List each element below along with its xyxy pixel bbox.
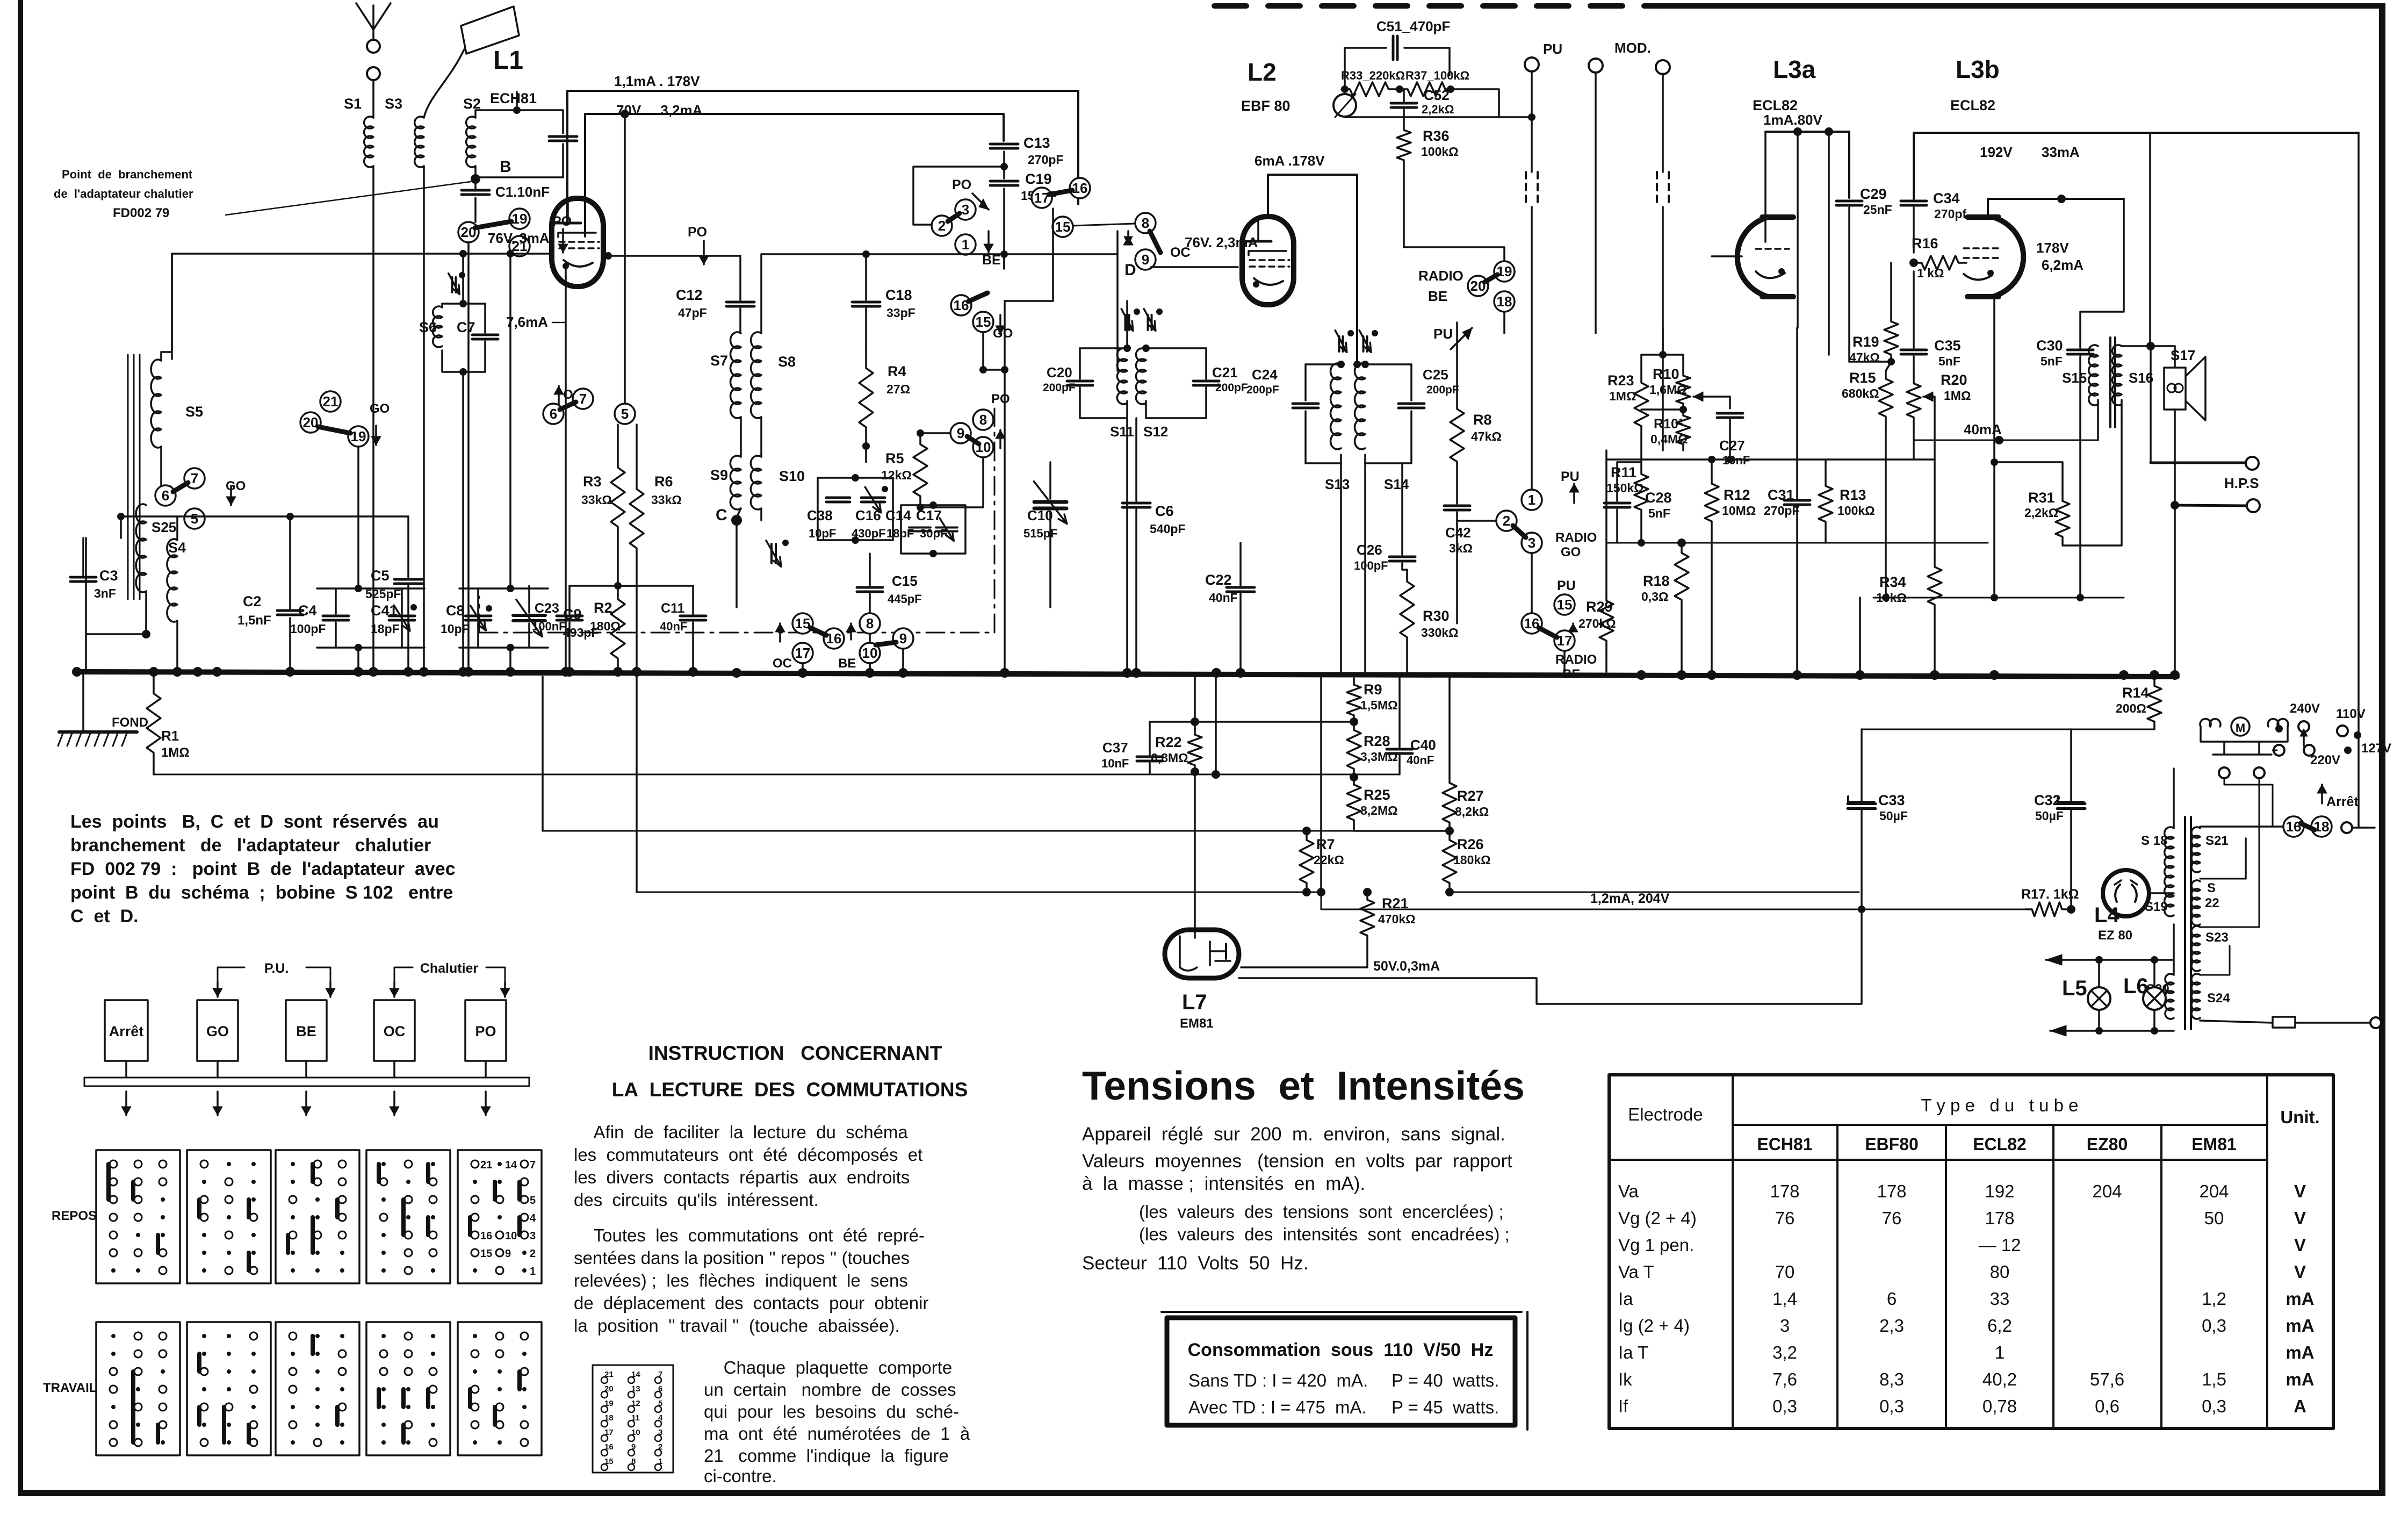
svg-text:19: 19 [1497,263,1512,279]
svg-text:R11: R11 [1611,464,1636,480]
svg-text:R12: R12 [1724,487,1750,503]
tuning indicator pot circle [1333,94,1356,117]
svg-text:la position '' travail '' (: la position '' travail '' (touche abaiss… [574,1316,900,1336]
svg-text:(les valeurs des tensions: (les valeurs des tensions sont encerclée… [1139,1202,1504,1222]
svg-text:S1: S1 [344,96,362,112]
svg-text:S25: S25 [152,519,176,535]
svg-text:Ia T: Ia T [1618,1342,1648,1362]
bus right portion dots [1636,670,1646,680]
svg-text:mA: mA [2286,1369,2314,1389]
svg-text:3: 3 [530,1230,536,1242]
svg-text:R14: R14 [2122,685,2149,701]
svg-text:9: 9 [957,425,964,441]
svg-text:Les points B, C et D so: Les points B, C et D sont réservés au [70,812,439,832]
svg-text:R28: R28 [1364,733,1390,749]
svg-text:mA: mA [2286,1316,2314,1336]
push-button PO [465,1000,506,1061]
svg-text:Va: Va [1618,1181,1639,1201]
svg-text:76V. 2,3mA: 76V. 2,3mA [1185,234,1258,250]
svg-text:GO: GO [1561,545,1581,559]
svg-text:1: 1 [530,1266,536,1277]
svg-text:680kΩ: 680kΩ [1842,386,1879,400]
tube table header [1732,1075,1734,1428]
svg-text:21: 21 [480,1159,492,1171]
plaquette travail 4 [366,1322,450,1455]
svg-text:7: 7 [579,391,587,407]
svg-text:RADIO: RADIO [1555,652,1597,667]
horizontal wire y961 [121,515,408,518]
svg-text:de l'adaptateur chalutier: de l'adaptateur chalutier [54,187,193,200]
svg-text:C15: C15 [892,573,918,589]
svg-text:5nF: 5nF [2041,354,2063,368]
cosse numbering figure [593,1365,673,1473]
svg-text:mA: mA [2286,1342,2314,1362]
svg-text:GO: GO [206,1023,229,1039]
antenna [372,30,374,39]
svg-text:R18: R18 [1643,573,1670,589]
plaquette travail 2 [187,1322,271,1455]
svg-text:C6: C6 [1155,503,1174,519]
svg-text:Afin de faciliter la lectu: Afin de faciliter la lecture du schéma [574,1122,908,1142]
svg-text:33pF: 33pF [886,306,915,320]
svg-text:INSTRUCTION CONCERNANT: INSTRUCTION CONCERNANT [648,1042,942,1064]
svg-text:C: C [716,506,727,524]
svg-text:21: 21 [323,393,338,410]
core lines S5 S4 [127,355,129,599]
svg-text:L2: L2 [1248,58,1277,86]
svg-text:S12: S12 [1143,423,1168,440]
C38 C14 box [818,478,893,540]
svg-text:33kΩ: 33kΩ [651,493,682,507]
wire C10 column [1049,462,1051,499]
svg-text:ECL82: ECL82 [1950,97,1995,113]
svg-text:RADIO: RADIO [1555,530,1597,545]
svg-text:C22: C22 [1205,572,1232,588]
svg-text:192: 192 [1985,1181,2014,1201]
B+ vertical to speaker line [2149,133,2151,346]
svg-text:C33: C33 [1878,792,1905,808]
P.U. bracket label [218,967,244,992]
svg-text:27Ω: 27Ω [886,382,910,396]
switch contacts PO lower [458,222,479,242]
svg-text:C52: C52 [1424,87,1450,103]
svg-text:8: 8 [979,412,987,428]
svg-text:ECH81: ECH81 [1757,1135,1812,1154]
svg-text:R4: R4 [888,363,906,379]
svg-text:430pF: 430pF [852,527,886,540]
svg-text:70V . 3,2mA: 70V . 3,2mA [616,102,703,118]
svg-text:C et D.: C et D. [70,906,139,927]
svg-text:Vg 1 pen.: Vg 1 pen. [1618,1235,1694,1255]
svg-text:330kΩ: 330kΩ [1421,626,1459,640]
wire S2 tank top to osc rail [516,92,518,110]
svg-text:S 18: S 18 [2141,834,2167,848]
svg-text:ci-contre.: ci-contre. [704,1466,777,1486]
svg-text:76V. 3mA: 76V. 3mA [488,230,550,246]
plaquette repos 4 [366,1150,450,1283]
svg-text:1: 1 [1528,492,1535,508]
PU terminal [1525,58,1539,71]
svg-text:P.U.: P.U. [264,961,289,976]
svg-text:FOND: FOND [112,715,148,730]
wire to switch 9 10 8 PO [951,295,971,315]
svg-text:C37: C37 [1102,740,1128,756]
S24 circuit [2200,974,2230,976]
switch cluster 8 10 9 BE [860,613,880,634]
svg-text:17: 17 [1557,633,1573,649]
svg-text:40nF: 40nF [1407,753,1434,767]
svg-text:Unit.: Unit. [2280,1107,2319,1127]
svg-text:10nF: 10nF [1101,757,1129,770]
consommation box [1167,1318,1515,1425]
svg-text:D: D [1124,261,1136,279]
S16 return to R31 [2063,420,2122,545]
svg-text:R20: R20 [1941,372,1967,388]
svg-text:EBF 80: EBF 80 [1241,98,1290,114]
svg-text:1MΩ: 1MΩ [161,745,190,760]
svg-text:de déplacement des contacts: de déplacement des contacts pour obtenir [574,1293,928,1313]
svg-text:7: 7 [530,1159,536,1171]
svg-text:47kΩ: 47kΩ [1471,429,1502,443]
R20 wiper [1923,397,1935,460]
svg-text:C2: C2 [243,593,262,609]
svg-text:ECL82: ECL82 [1753,97,1798,113]
svg-text:Chaque plaquette comporte: Chaque plaquette comporte [704,1358,952,1377]
svg-text:C3: C3 [99,568,118,584]
svg-text:20: 20 [303,414,319,430]
svg-text:(les valeurs des intensités: (les valeurs des intensités sont encadré… [1139,1224,1510,1244]
svg-text:16: 16 [480,1230,492,1242]
svg-text:V: V [2294,1208,2306,1228]
svg-text:R16: R16 [1912,235,1938,252]
plaquette travail 5 [458,1322,542,1455]
svg-text:204: 204 [2199,1181,2229,1201]
svg-text:1,5: 1,5 [2202,1369,2226,1389]
L3a feed verticals [1797,132,1799,328]
C16 C17 box [901,505,965,554]
svg-text:3: 3 [1528,535,1535,551]
svg-text:25nF: 25nF [1863,203,1892,217]
svg-text:R26: R26 [1457,836,1484,852]
svg-text:PO: PO [952,177,971,192]
svg-text:10MΩ: 10MΩ [1722,504,1756,518]
svg-text:R31: R31 [2028,490,2055,506]
bus dots middle [732,668,741,678]
svg-text:0,6: 0,6 [2095,1396,2119,1416]
svg-text:C14: C14 [885,507,911,523]
PU coupling dashed caps [1531,71,1533,172]
svg-text:40nF: 40nF [660,620,687,633]
svg-text:16: 16 [826,630,842,647]
svg-text:180kΩ: 180kΩ [1453,853,1491,867]
svg-text:1: 1 [962,236,969,253]
svg-text:5: 5 [530,1195,536,1207]
svg-text:des circuits qu'ils intéres: des circuits qu'ils intéressent. [574,1190,819,1210]
svg-text:S: S [2207,881,2216,895]
svg-text:V: V [2294,1235,2306,1255]
switch cluster 3 2 1 BE [955,199,976,220]
svg-text:BE: BE [838,656,856,671]
rail 192V [1988,199,2124,217]
svg-text:15: 15 [976,314,991,330]
svg-text:C13: C13 [1023,135,1050,151]
wires selector to transformer [2200,878,2246,880]
svg-text:178: 178 [1770,1181,1799,1201]
svg-text:à la masse ; intensités en: à la masse ; intensités en mA). [1082,1173,1365,1194]
svg-text:5: 5 [621,406,629,422]
svg-text:Arrêt: Arrêt [2326,794,2359,809]
MOD coupling dashed caps [1662,74,1664,172]
dash-dot IF box [479,408,994,633]
push-button GO [197,1000,238,1061]
svg-text:1,5MΩ: 1,5MΩ [1360,698,1398,712]
svg-text:R21: R21 [1382,895,1409,911]
wire R3 R6 tops [617,425,619,451]
svg-text:9: 9 [899,630,907,647]
grid line L3a [1712,255,1742,257]
svg-text:525pF: 525pF [365,587,401,601]
svg-text:15: 15 [795,615,811,631]
svg-text:6: 6 [550,406,557,422]
svg-text:L4: L4 [2094,903,2119,927]
svg-text:8: 8 [1142,215,1149,231]
svg-text:1mA.80V: 1mA.80V [1763,112,1822,128]
svg-text:Avec TD : I = 475 mA.: Avec TD : I = 475 mA. [1188,1397,1367,1417]
svg-text:3nF: 3nF [94,586,116,600]
svg-text:Ik: Ik [1618,1369,1632,1389]
tube L3a triode [1762,214,1793,220]
svg-text:127V: 127V [2361,741,2391,756]
Chalutier bracket label [394,967,413,992]
svg-text:7,6mA: 7,6mA [506,314,548,330]
svg-text:C42: C42 [1445,525,1471,541]
svg-text:Valeurs moyennes (tension: Valeurs moyennes (tension en volts par r… [1082,1151,1512,1172]
svg-text:R37_100kΩ: R37_100kΩ [1405,69,1469,82]
MOD terminal [1656,60,1670,74]
svg-text:Vg (2 + 4): Vg (2 + 4) [1618,1208,1697,1228]
svg-text:sentées dans la position '' re: sentées dans la position '' repos '' (to… [574,1248,910,1268]
svg-text:Consommation sous 110 V/50: Consommation sous 110 V/50 Hz [1188,1340,1494,1360]
svg-text:178: 178 [1877,1181,1906,1201]
svg-text:R34: R34 [1879,574,1906,590]
svg-text:8,2MΩ: 8,2MΩ [1360,803,1398,817]
svg-text:76: 76 [1775,1208,1795,1228]
svg-text:C38: C38 [807,507,833,523]
svg-text:270pf: 270pf [1934,207,1966,221]
svg-text:S14: S14 [1384,476,1409,492]
svg-text:7: 7 [191,470,198,486]
svg-text:C27: C27 [1719,437,1745,454]
svg-text:50: 50 [2204,1208,2224,1228]
svg-text:REPOS: REPOS [52,1209,97,1223]
svg-text:1: 1 [1995,1342,2005,1362]
svg-text:100pF: 100pF [290,622,326,636]
svg-text:Va T: Va T [1618,1262,1654,1282]
svg-text:R8: R8 [1473,412,1492,428]
svg-text:2,3: 2,3 [1879,1316,1904,1336]
wires from clusters to bus [802,663,804,672]
svg-text:C35: C35 [1934,338,1961,354]
svg-text:470kΩ: 470kΩ [1378,912,1416,926]
svg-text:9: 9 [1142,252,1149,268]
svg-text:5: 5 [191,511,198,527]
svg-text:C34: C34 [1933,190,1960,206]
svg-text:1,4: 1,4 [1772,1289,1797,1309]
svg-text:Secteur 110 Volts 50 Hz.: Secteur 110 Volts 50 Hz. [1082,1253,1309,1274]
switch GO S5 [184,468,205,489]
svg-text:L3a: L3a [1773,55,1816,83]
svg-text:PU: PU [1433,326,1453,342]
svg-text:S5: S5 [185,404,203,420]
svg-text:EZ 80: EZ 80 [2098,928,2132,943]
svg-text:16: 16 [2286,819,2302,835]
L2 grid line [1151,266,1238,268]
svg-text:22kΩ: 22kΩ [1314,853,1344,867]
main ground bus wire [77,672,2177,677]
svg-text:15: 15 [1055,219,1071,235]
svg-text:8: 8 [866,615,874,631]
AGC long line [154,774,1400,776]
svg-text:point B du schéma ; bobin: point B du schéma ; bobine S 102 entre [70,882,453,903]
svg-text:— 12: — 12 [1979,1235,2021,1255]
svg-text:2: 2 [1503,513,1510,529]
svg-text:2: 2 [938,218,946,234]
svg-text:P = 45 watts.: P = 45 watts. [1392,1397,1499,1417]
fuse and mains output [2200,1021,2273,1023]
svg-text:GO: GO [370,401,390,416]
svg-text:branchement de l'adaptateu: branchement de l'adaptateur chalutier [70,835,431,856]
svg-text:R3: R3 [583,473,602,490]
svg-text:33mA: 33mA [2042,144,2080,160]
svg-text:S13: S13 [1325,476,1350,492]
svg-text:17: 17 [1034,190,1050,206]
svg-text:3: 3 [962,202,969,218]
svg-text:R22: R22 [1155,734,1182,750]
transformer core [2184,817,2186,1029]
svg-text:1,2: 1,2 [2202,1289,2226,1309]
wire detector to PU row [1499,116,1532,118]
svg-text:220V: 220V [2310,753,2340,767]
svg-text:C12: C12 [676,287,703,303]
svg-text:1MΩ: 1MΩ [1609,389,1636,403]
svg-text:R2: R2 [594,600,612,616]
switch cluster above bus 15 16 17 OC [792,613,813,634]
svg-text:18: 18 [1497,293,1512,310]
svg-text:0,3Ω: 0,3Ω [1641,590,1668,604]
svg-text:C11: C11 [661,601,685,616]
svg-text:22: 22 [2205,896,2219,910]
svg-text:6,2mA: 6,2mA [2042,257,2083,273]
svg-text:1,2mA, 204V: 1,2mA, 204V [1590,891,1670,906]
svg-text:100kΩ: 100kΩ [1421,145,1459,159]
S2 tank loop and capacitor [475,110,563,133]
svg-text:PU: PU [1557,578,1576,593]
svg-text:R5: R5 [885,450,904,466]
svg-text:18pF: 18pF [371,622,400,636]
svg-text:P = 40 watts.: P = 40 watts. [1392,1370,1499,1390]
svg-text:0,78: 0,78 [1982,1396,2017,1416]
svg-text:2: 2 [530,1248,536,1260]
svg-text:S10: S10 [779,468,805,484]
svg-text:57,6: 57,6 [2090,1369,2124,1389]
svg-text:10pF: 10pF [809,527,836,540]
branch from C13-C19 node [913,167,1004,225]
svg-text:S11: S11 [1110,423,1134,440]
svg-text:1 kΩ: 1 kΩ [1917,266,1944,280]
top rail to L3b [1914,133,2359,199]
svg-text:C25: C25 [1423,367,1448,383]
svg-text:A: A [2294,1396,2306,1416]
tube table frame [1609,1075,2333,1428]
pointer line to B [226,182,471,215]
push-button BE [286,1000,327,1061]
switch 19 GO above C4 [320,391,341,412]
svg-text:200Ω: 200Ω [2116,701,2146,715]
svg-text:LA LECTURE DES COMMUTATIONS: LA LECTURE DES COMMUTATIONS [612,1079,968,1101]
svg-text:50V.0,3mA: 50V.0,3mA [1373,959,1440,974]
svg-text:If: If [1618,1396,1628,1416]
svg-text:R15: R15 [1849,370,1876,386]
svg-text:6mA .178V: 6mA .178V [1255,153,1325,169]
svg-text:Electrode: Electrode [1628,1104,1703,1124]
svg-text:0,3: 0,3 [1879,1396,1904,1416]
svg-text:33: 33 [1990,1289,2010,1309]
plaquette repos 1 [96,1150,180,1283]
svg-text:240V: 240V [2290,701,2320,716]
svg-text:qui pour les besoins du s: qui pour les besoins du sché- [704,1402,959,1422]
svg-text:TRAVAIL: TRAVAIL [43,1381,97,1395]
tube L4 EZ80 rectifier [2103,870,2149,916]
L3b cathode down [1993,297,1995,598]
push-button OC [374,1000,415,1061]
svg-text:S15: S15 [2062,370,2087,386]
svg-text:178V: 178V [2036,240,2069,256]
plaquette travail 3 [276,1322,359,1455]
svg-text:178: 178 [1985,1208,2014,1228]
svg-text:mA: mA [2286,1289,2314,1309]
svg-text:200pF: 200pF [1215,382,1248,394]
voltage selector motor symbols [2200,719,2211,727]
wire R36 down to radio switch [1404,167,1504,262]
svg-text:S24: S24 [2207,991,2230,1006]
switch cluster 17 16 15 8 9 [1032,188,1052,208]
svg-text:L3b: L3b [1956,55,2000,83]
svg-text:GO: GO [226,479,246,493]
svg-text:R10: R10 [1653,366,1679,382]
svg-text:5nF: 5nF [1938,354,1960,368]
top feeds R23 R10 [1640,355,1642,374]
svg-text:PU: PU [1543,41,1562,57]
C8 box [477,588,479,614]
switch RADIO GO PU 1 2 3 [1522,490,1542,510]
svg-text:EZ80: EZ80 [2087,1135,2128,1154]
svg-text:T y p e d u t u b e: T y p e d u t u b e [1921,1095,2079,1115]
svg-text:PO: PO [991,392,1010,406]
svg-text:BE: BE [296,1023,316,1039]
svg-text:C19: C19 [1025,171,1052,187]
terminal mid [1589,59,1603,73]
svg-text:10pF: 10pF [441,622,470,636]
C4 C41 box [335,588,337,614]
svg-text:OC: OC [384,1023,406,1039]
svg-text:Sans TD : I = 420 mA.: Sans TD : I = 420 mA. [1188,1370,1368,1390]
switch 5 OC above C8 [615,404,635,424]
svg-text:50µF: 50µF [1879,809,1908,823]
svg-text:10: 10 [862,645,878,661]
capacitor C1 10nF [462,189,489,192]
plaquette repos 5 [458,1150,542,1283]
svg-text:18: 18 [2314,819,2330,835]
